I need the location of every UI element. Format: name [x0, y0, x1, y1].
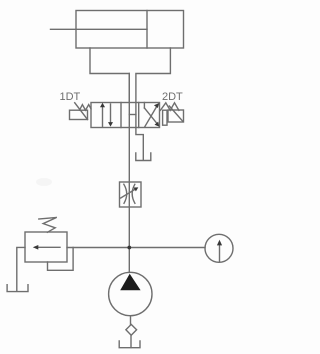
- arrowhead up (valve left square): [100, 103, 105, 108]
- valve left square up-arrow stem: [102, 105, 104, 127]
- cylinder piston: [146, 11, 148, 49]
- cylinder rod: [51, 28, 148, 30]
- junction node: [127, 246, 131, 250]
- gauge needle stem: [219, 244, 221, 262]
- wire relief outlet to tank: [17, 247, 25, 291]
- valve X diagonal B-T: [144, 108, 157, 125]
- tank T3: [119, 341, 140, 348]
- throttle arc right: [132, 184, 135, 203]
- filter F diamond: [126, 324, 137, 335]
- valve X square stub: [143, 103, 145, 109]
- wire cylinder right port to valve B: [136, 48, 171, 103]
- tank T1: [136, 153, 151, 161]
- wire cylinder left port to valve A: [90, 48, 129, 103]
- valve divider left: [120, 103, 122, 128]
- arrowhead throttle arrow: [133, 187, 138, 191]
- valve center square B-T vertical: [135, 103, 137, 128]
- pump P circle: [109, 272, 152, 315]
- pump triangle: [120, 274, 140, 290]
- wire main pressure line: [128, 74, 130, 273]
- solenoid 2DT box: [168, 110, 184, 122]
- throttle adjust arrow stem: [121, 189, 137, 198]
- svg-text:1DT: 1DT: [60, 91, 81, 103]
- valve left square down-arrow stem: [110, 104, 112, 124]
- valve divider right: [138, 103, 140, 128]
- arrowhead X bottom-right: [155, 122, 160, 127]
- wire valve T to tank: [136, 128, 143, 160]
- arrowhead relief valve left: [33, 245, 39, 250]
- cylinder barrel: [76, 11, 184, 49]
- solenoid 2DT diagonal: [169, 106, 183, 121]
- wire pump suction: [130, 316, 132, 325]
- relief valve RV box: [25, 232, 67, 262]
- solenoid 1DT diagonal: [75, 103, 88, 120]
- throttle valve box: [120, 182, 142, 207]
- arrowhead X top-right: [154, 103, 159, 108]
- wire main horizontal line: [67, 247, 205, 249]
- tank T2: [7, 285, 28, 292]
- valve X diagonal P-B: [145, 106, 158, 127]
- valve V1 body: [91, 103, 160, 128]
- solenoid 1DT box: [70, 110, 88, 119]
- relief valve arrow stem: [37, 246, 60, 248]
- arrowhead down (valve left square): [108, 122, 113, 127]
- arrowhead gauge needle: [217, 240, 222, 246]
- svg-text:2DT: 2DT: [162, 91, 183, 103]
- spring right: [160, 103, 179, 111]
- throttle arc left: [124, 184, 127, 203]
- spring left: [80, 105, 92, 111]
- wire filter to tank: [130, 335, 132, 347]
- relief valve pilot line: [48, 248, 74, 271]
- valve center square crossbar: [129, 114, 136, 116]
- faint scan smudge: [36, 178, 52, 186]
- solenoid 2DT pushpin: [163, 110, 167, 125]
- relief valve spring: [39, 217, 57, 232]
- pressure gauge PG circle: [205, 234, 233, 262]
